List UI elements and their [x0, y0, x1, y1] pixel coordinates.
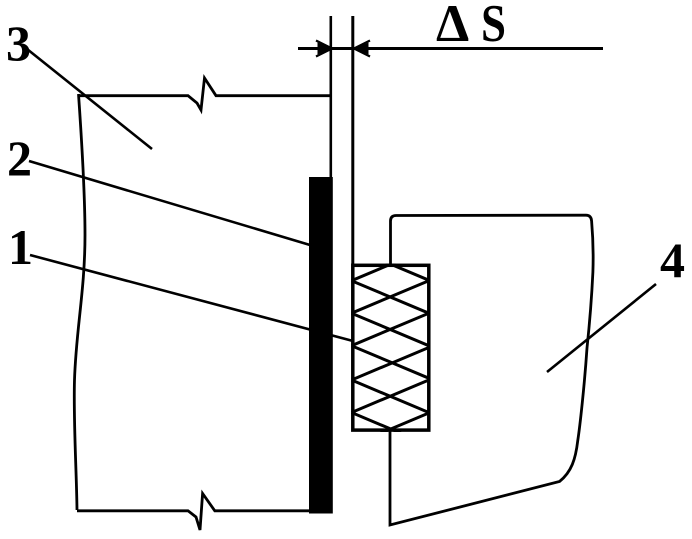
- svg-text:3: 3: [6, 15, 31, 71]
- seal 1 (crosshatched rectangle): [352, 248, 431, 446]
- top edge with break symbol: [79, 78, 330, 110]
- arrowhead left-pointing at right gap line: [354, 41, 370, 57]
- arrowhead right-pointing at left gap line: [316, 41, 332, 57]
- svg-text:4: 4: [660, 232, 685, 288]
- bottom edge with break symbol: [77, 494, 310, 531]
- svg-text:1: 1: [8, 219, 33, 275]
- leader 2: [29, 161, 310, 245]
- svg-text:2: 2: [7, 130, 32, 186]
- leader 4: [547, 284, 656, 372]
- dimension line ΔS: [298, 47, 603, 50]
- svg-text:S: S: [481, 0, 506, 53]
- gap line B (right extension line): [351, 16, 354, 264]
- leader 1: [30, 255, 353, 341]
- gap line A (left extension line): [329, 16, 332, 177]
- bar 2 (black strip): [309, 177, 333, 514]
- svg-text:Δ: Δ: [436, 0, 469, 53]
- leader 3: [27, 49, 152, 149]
- block 4 outline: [390, 215, 593, 525]
- block 3 outline (left body with break lines): [74, 78, 330, 530]
- left wavy edge: [74, 94, 85, 510]
